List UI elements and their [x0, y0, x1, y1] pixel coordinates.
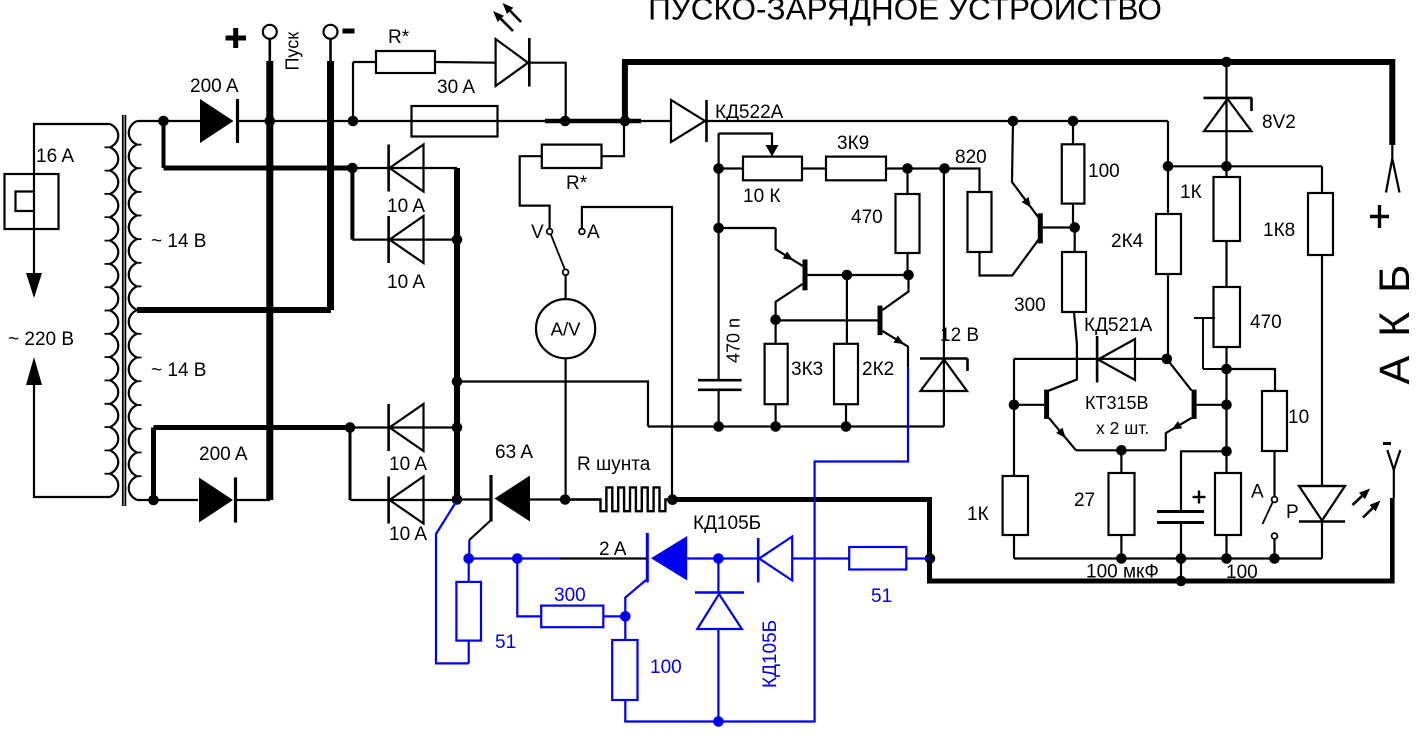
wiper loop: [719, 134, 772, 148]
svg-text:820: 820: [955, 147, 987, 168]
transformer secondary winding bottom ~14В: [129, 310, 137, 500]
blue 300 resistor: [541, 606, 603, 628]
svg-text:10 К: 10 К: [743, 186, 780, 207]
node dot 457-427: [452, 422, 463, 433]
svg-text:КД105Б: КД105Б: [693, 513, 761, 534]
svg-text:A/V: A/V: [551, 319, 581, 340]
node dot 353: [348, 116, 359, 127]
LED Р indicator: [1299, 485, 1345, 487]
wire 470n bottom: [717, 390, 719, 427]
terminal + circle: [263, 25, 277, 39]
svg-text:КТ315В: КТ315В: [1085, 393, 1149, 413]
transformer secondary winding top ~14В: [129, 121, 137, 310]
label + АКБ: [1370, 215, 1389, 218]
resistor 27: [1109, 473, 1135, 535]
node dot 718-228: [713, 223, 724, 234]
wire y166 row: [1168, 165, 1322, 167]
svg-text:27: 27: [1074, 490, 1095, 511]
wire cap top: [1181, 451, 1227, 512]
node dot bus 8V2: [1221, 57, 1232, 68]
svg-text:~ 14 В: ~ 14 В: [151, 231, 206, 252]
diode 10A D1: [387, 145, 390, 192]
switch V contact: [547, 229, 553, 235]
svg-text:КД522А: КД522А: [715, 102, 784, 123]
resistor 3К3: [765, 344, 788, 404]
switch pivot: [563, 269, 569, 275]
blue wire to 300: [517, 559, 541, 617]
wire R*1 to LED: [435, 61, 496, 64]
QR emitter: [1166, 418, 1192, 450]
wire terminal - vertical: [329, 39, 332, 61]
wire SCR to shunt: [530, 498, 601, 500]
svg-text:10 A: 10 A: [387, 272, 425, 293]
node dot 565-499: [560, 494, 571, 505]
node dot 930-558: [925, 553, 936, 564]
wire top thick bus: [622, 59, 1392, 65]
resistor 300 right: [1062, 252, 1086, 312]
resistor 470 trimmer: [1214, 287, 1241, 347]
LED arrows: [493, 11, 504, 22]
switch A contact: [579, 229, 585, 235]
blue diode КД105Б vertical: [695, 591, 744, 594]
svg-text:300: 300: [1014, 295, 1046, 316]
svg-text:300: 300: [554, 585, 586, 606]
wire 1К8 leads: [1321, 166, 1323, 193]
terminal fork +: [1386, 159, 1400, 193]
svg-text:200 A: 200 A: [199, 444, 248, 465]
wire mains bottom: [34, 385, 110, 497]
diode 200A bottom: [199, 478, 233, 523]
blue SCR gate: [625, 579, 647, 616]
wire x350 down: [349, 428, 352, 501]
switch A contact right: [1272, 497, 1278, 503]
Q3 emitter arrow: [1022, 197, 1031, 208]
node dot 907-168: [902, 163, 913, 174]
svg-text:10: 10: [1288, 407, 1309, 428]
svg-text:470: 470: [851, 207, 883, 228]
QR collector: [1167, 359, 1192, 391]
wire LED Р bottom: [1321, 522, 1323, 559]
svg-text:1К: 1К: [1180, 182, 1202, 203]
wire 2A segment: [560, 557, 647, 559]
wire switch A to shunt right: [582, 207, 672, 495]
QL emitter: [1049, 418, 1076, 450]
wire thick bus drop right: [1389, 59, 1395, 145]
transistor Q2 base bar: [878, 306, 883, 336]
wire 12В zener vertical: [943, 169, 945, 427]
SCR gate lead: [469, 521, 490, 540]
svg-text:51: 51: [871, 586, 892, 607]
QL collector: [1049, 380, 1077, 391]
resistor 1К left: [1003, 476, 1028, 535]
shunt R шунта: [565, 487, 677, 511]
wire osc rail x718: [717, 134, 719, 381]
resistor 3К9: [826, 157, 886, 181]
blue 100 leads: [624, 616, 626, 640]
wire pivot to meter: [564, 275, 566, 299]
wire y168 thick: [164, 166, 353, 171]
blue node dot 469: [463, 553, 474, 564]
diode КД522А: [671, 100, 705, 142]
svg-text:30 A: 30 A: [437, 77, 475, 98]
wire 10 bottom: [1273, 451, 1275, 497]
svg-text:~ 14 В: ~ 14 В: [151, 360, 206, 381]
wire 1К-470 link: [1225, 241, 1227, 287]
wire 3К3 leads: [774, 320, 776, 344]
svg-text:470 n: 470 n: [724, 318, 744, 363]
blue gate row: [469, 557, 560, 559]
Q1 emitter arrow: [783, 251, 794, 260]
pot 10К: [743, 157, 802, 181]
wire branch y381: [457, 382, 648, 427]
svg-text:х 2 шт.: х 2 шт.: [1096, 418, 1149, 438]
svg-text:2К2: 2К2: [862, 359, 894, 380]
node dot 1227-404: [1221, 400, 1232, 411]
zener 12В: [920, 357, 968, 360]
blue 51h right lead: [906, 557, 930, 559]
svg-text:8V2: 8V2: [1262, 112, 1296, 133]
wire rail to thick bus: [1180, 559, 1182, 582]
thyristor 63A: [489, 475, 492, 522]
wire mains top: [34, 124, 110, 273]
wire main dc bus y121 thick segment: [545, 119, 641, 124]
wire Q1 emitter feed: [719, 227, 776, 229]
label + terminal: [226, 36, 247, 41]
svg-text:200 A: 200 A: [190, 76, 239, 97]
node dot 163: [158, 116, 169, 127]
blue 51 resistor horizontal: [849, 547, 906, 570]
blue node dot 718-558: [713, 553, 724, 564]
wire 10A D2 row: [352, 239, 457, 241]
terminal fork -: [1383, 442, 1391, 445]
blue long feedback wire: [718, 367, 908, 722]
wire 10A D3 row: [350, 426, 457, 428]
svg-text:1К8: 1К8: [1263, 220, 1295, 241]
node dot 457-381: [452, 376, 463, 387]
QL base wire: [1014, 404, 1044, 406]
wire node163 down: [162, 121, 166, 168]
svg-text:100: 100: [1226, 562, 1258, 583]
node dot 1227-451: [1221, 446, 1232, 457]
wire pot to 3К9: [802, 167, 826, 169]
wire branch to 10: [1227, 369, 1276, 391]
resistor 100 divider: [1215, 473, 1241, 535]
capacitor 100мкФ: [1157, 510, 1204, 513]
wire x1168 riser: [1167, 121, 1169, 166]
diode 10A D4: [387, 477, 390, 524]
svg-text:ПУСКО-ЗАРЯДНОЕ УСТРОЙСТВО: ПУСКО-ЗАРЯДНОЕ УСТРОЙСТВО: [648, 0, 1162, 27]
wire secondary bottom: [137, 499, 198, 501]
transformer primary winding: [110, 124, 118, 497]
blue node dot 718-721: [713, 716, 724, 727]
blue wire SCR anode: [687, 557, 758, 559]
transistor QR base bar: [1192, 390, 1197, 419]
resistor 1К8: [1308, 193, 1333, 255]
switch Р contact: [1272, 533, 1278, 539]
wire thick bottom bus: [927, 579, 1392, 584]
node dot 270: [265, 116, 276, 127]
node dot 1274-558: [1269, 553, 1280, 564]
node dot 1181-581: [1176, 576, 1187, 587]
node dot 1013: [1008, 116, 1019, 127]
svg-text:R*: R*: [566, 173, 588, 194]
wire 100 top leads: [1072, 121, 1074, 144]
label cap +: [1193, 496, 1206, 498]
wire charge bus x457: [454, 168, 460, 500]
capacitor 470n: [698, 379, 742, 382]
diode 200A top: [200, 99, 234, 143]
svg-text:3К3: 3К3: [791, 359, 823, 380]
node dot 1167-358: [1162, 354, 1173, 365]
wire 3К9 right: [886, 167, 945, 169]
pot wiper arrow: [766, 145, 779, 157]
svg-text:А К Б: А К Б: [1371, 261, 1419, 384]
label - terminal: [343, 29, 355, 34]
svg-text:~ 220 В: ~ 220 В: [8, 329, 74, 350]
node dot 718-168: [713, 163, 724, 174]
wire 10A D1 row: [352, 167, 457, 169]
resistor 100 top: [1062, 144, 1085, 203]
svg-text:КД521А: КД521А: [1084, 315, 1153, 336]
node dot shunt right: [667, 494, 678, 505]
wire emitters join: [1076, 449, 1166, 451]
blue wire diode to 51: [792, 557, 849, 559]
transistor Q3 base bar: [1038, 213, 1043, 243]
node dot 1121-450: [1116, 445, 1127, 456]
svg-text:A: A: [587, 222, 600, 243]
Q2 base wire: [776, 319, 880, 321]
wire main low bus: [457, 498, 491, 500]
node dot 909-275: [903, 270, 914, 281]
wire LED to bus: [529, 63, 565, 121]
wire y427 thick: [154, 425, 351, 430]
LED 30A indicator: [496, 39, 528, 86]
wire 10A D4 row: [350, 499, 457, 501]
zener 8V2: [1225, 62, 1227, 177]
wire 2К2 leads: [846, 275, 848, 344]
wire pot left: [719, 167, 743, 169]
fuse 30 A: [412, 106, 498, 137]
resistor 470 osc: [896, 194, 920, 253]
node dot 1227-369: [1221, 364, 1232, 375]
switch lever: [551, 234, 565, 269]
node dot 1168-166: [1163, 161, 1174, 172]
node dot 1227-558: [1221, 553, 1232, 564]
svg-text:1К: 1К: [967, 504, 989, 525]
node dot 944-168: [939, 163, 950, 174]
transformer core: [122, 115, 124, 506]
blue return path: [436, 502, 469, 663]
wire terminal + vertical: [268, 39, 271, 61]
node dot 625: [620, 116, 631, 127]
wire 470 bottom chain: [1225, 347, 1227, 473]
arrow mains bottom: [26, 357, 42, 385]
resistor 2К2: [834, 344, 858, 404]
circuit breaker 16A box: [5, 174, 59, 229]
wire secondary top to diode: [137, 120, 200, 122]
wire thick corner down: [927, 497, 932, 581]
svg-text:Пуск: Пуск: [283, 32, 303, 71]
svg-text:3К9: 3К9: [837, 133, 869, 154]
node dot 1121-558: [1116, 553, 1127, 564]
resistor R*1: [376, 51, 435, 73]
wire R*2 right to node625: [602, 121, 625, 156]
meter A/V: [536, 299, 595, 358]
blue SCR 2A: [646, 533, 649, 582]
node dot 1073: [1068, 116, 1079, 127]
wire 2К4 leads: [1167, 166, 1169, 214]
wire thick bus riser x625: [622, 62, 628, 121]
resistor 10: [1262, 391, 1287, 451]
svg-text:100: 100: [1088, 161, 1120, 182]
node dot 775-319: [770, 314, 781, 325]
svg-text:V: V: [531, 222, 544, 243]
node dot 352-168: [347, 163, 358, 174]
node dot 718-426: [713, 421, 724, 432]
node dot 1181-558: [1176, 553, 1187, 564]
wire x353 down: [350, 168, 354, 240]
svg-text:R*: R*: [388, 27, 410, 48]
blue gate wire: [468, 540, 470, 559]
wire bottom thin rail: [1014, 557, 1322, 559]
wire switch to rail: [1273, 539, 1275, 559]
blue diode vertical leads: [717, 559, 719, 593]
svg-text:R шунта: R шунта: [577, 454, 651, 475]
wire 820 to Q3 collector: [980, 239, 1040, 276]
wire R*1 branch: [352, 62, 354, 121]
svg-text:63 A: 63 A: [495, 442, 533, 463]
svg-text:10 A: 10 A: [389, 454, 427, 475]
resistor 820: [968, 192, 992, 252]
Q3 emitter: [1012, 121, 1039, 218]
Q3 base wire: [1043, 226, 1075, 228]
svg-text:2К4: 2К4: [1111, 231, 1144, 252]
node dot 847-275: [842, 270, 853, 281]
node dot 846-426: [841, 421, 852, 432]
node dot 565: [560, 116, 571, 127]
svg-text:КД105Б: КД105Б: [760, 620, 781, 688]
resistor 1К right: [1214, 177, 1241, 241]
wire 27 leads: [1120, 450, 1122, 473]
blue 51v leads: [468, 559, 470, 582]
wire center tap: [137, 307, 331, 313]
trimmer tap: [1194, 317, 1215, 319]
wire meter to shunt: [564, 358, 566, 499]
svg-text:10 A: 10 A: [387, 196, 425, 217]
wire main dc bus y121: [238, 120, 546, 122]
wire R*2 left to switch V: [520, 156, 550, 228]
svg-text:Р: Р: [1286, 502, 1299, 523]
svg-text:А: А: [1251, 482, 1264, 503]
wire 300 top lead: [1074, 228, 1076, 253]
wire 1К left bottom: [1013, 535, 1015, 559]
Q2 collector: [883, 275, 909, 310]
resistor R*2: [542, 145, 602, 168]
QL emitter arrow: [1056, 428, 1066, 438]
LED Р arrows: [1359, 489, 1370, 500]
node dot 1014-405: [1009, 400, 1020, 411]
Q1 base wire: [808, 274, 910, 276]
wire 470 osc leads: [906, 169, 908, 195]
diode 10A D2: [387, 216, 390, 263]
blue 100 resistor: [612, 640, 637, 700]
Q1 emitter: [776, 228, 803, 266]
wire 100 divider leads: [1225, 535, 1227, 559]
node dot 1226-166: [1221, 161, 1232, 172]
svg-text:100 мкФ: 100 мкФ: [1086, 562, 1159, 583]
wire osc ground rail: [648, 425, 944, 427]
wire x1014 down: [1013, 359, 1015, 476]
svg-text:470: 470: [1250, 312, 1282, 333]
svg-text:2 A: 2 A: [599, 539, 627, 560]
transistor QL base bar: [1044, 390, 1049, 419]
wire КД521А row: [1014, 358, 1167, 360]
wire main dc bus to КД522А: [641, 120, 672, 122]
wire cap bottom: [1180, 523, 1182, 559]
diode 10A D3: [387, 404, 390, 451]
blue 51 resistor vertical: [456, 582, 481, 641]
svg-text:10 A: 10 A: [389, 524, 427, 545]
diode КД521А: [1096, 336, 1099, 383]
wire 300 bottom to QL collector: [1049, 312, 1077, 391]
blue 300 right lead: [603, 615, 625, 617]
wire diode200A to plus: [236, 499, 271, 501]
arrow mains top: [26, 273, 42, 298]
wire thick shunt to corner: [675, 497, 930, 502]
node dot 775-426: [770, 421, 781, 432]
terminal - circle: [324, 25, 338, 39]
node dot 350-427: [345, 422, 356, 433]
node dot 457-499: [452, 494, 463, 505]
node dot 457-239: [452, 234, 463, 245]
node dot 153-500: [148, 495, 159, 506]
node dot 1074-227: [1069, 222, 1080, 233]
svg-text:16 A: 16 A: [36, 146, 74, 167]
blue diode КД105Б horizontal: [757, 538, 760, 582]
svg-text:100: 100: [650, 657, 682, 678]
Q2 emitter: [883, 331, 909, 367]
wire КД522А output: [707, 120, 1169, 122]
resistor 2К4: [1156, 214, 1181, 274]
wire thick right riser: [1390, 498, 1395, 584]
blue node dot 625: [620, 611, 631, 622]
switch lever right: [1263, 503, 1273, 525]
QR base wire: [1197, 404, 1227, 406]
svg-text:51: 51: [495, 632, 516, 653]
Q1 collector: [776, 284, 803, 320]
wire to 820: [945, 169, 980, 193]
Q2 emitter arrow: [894, 336, 905, 345]
blue node dot 517: [512, 553, 523, 564]
QR emitter arrow: [1172, 421, 1183, 430]
svg-text:12 В: 12 В: [940, 325, 979, 346]
transistor Q1 base bar: [803, 260, 808, 291]
